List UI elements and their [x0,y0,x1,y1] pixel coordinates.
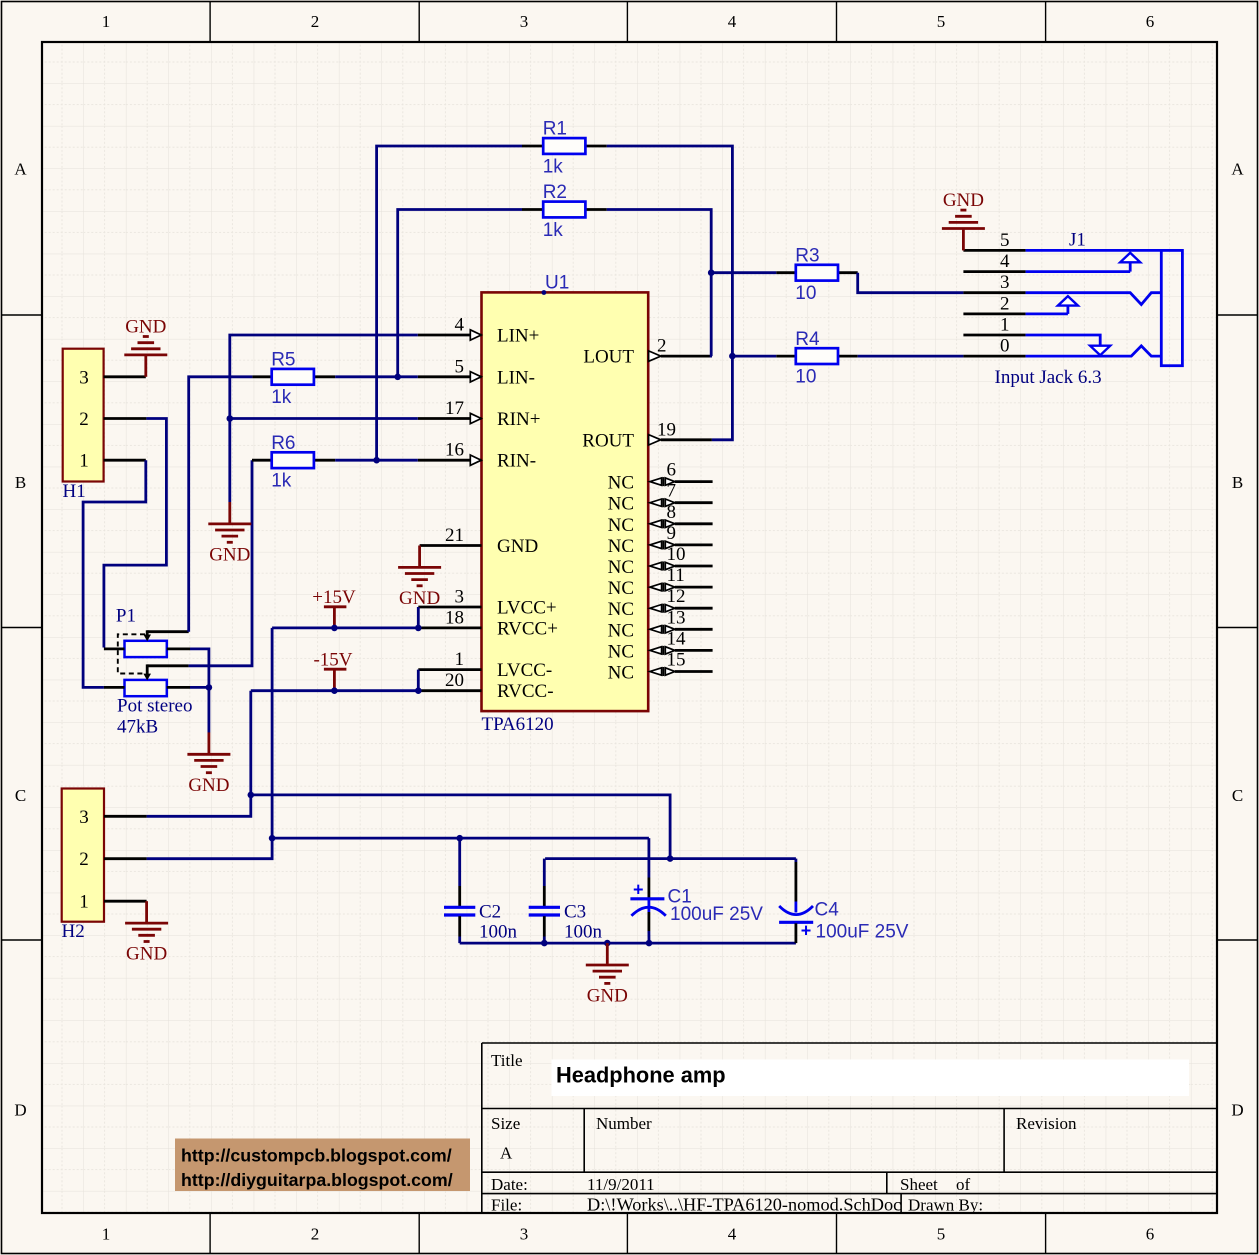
wire R2 left to LIN- junction [398,210,522,377]
svg-text:http://custompcb.blogspot.com/: http://custompcb.blogspot.com/ [181,1146,452,1166]
svg-text:J1: J1 [1069,230,1086,251]
J1 pin 0 [963,336,1025,357]
svg-text:2: 2 [79,409,89,430]
svg-text:0: 0 [1000,336,1010,357]
junction +15V symbol [331,625,338,632]
svg-text:GND: GND [399,588,440,609]
P1 value label [117,696,192,738]
svg-text:Headphone amp: Headphone amp [556,1063,726,1088]
P1 bottom-left terminal lead [104,686,125,689]
svg-text:TPA6120: TPA6120 [482,714,554,735]
junction C3 bottom [541,940,548,947]
P1 top-left terminal lead [104,648,125,651]
resistor R4 leads [776,355,857,358]
U1 pin 8 NC [608,502,713,536]
svg-text:+15V: +15V [312,587,356,608]
wire RIN+ branch [230,417,418,420]
wire R6 to RIN- pin [335,459,418,462]
U1 pin 10 NC [608,544,713,578]
svg-text:4: 4 [455,315,465,336]
svg-text:D: D [14,1101,26,1120]
svg-text:RIN-: RIN- [497,451,536,472]
svg-text:11: 11 [667,565,685,586]
svg-text:3: 3 [79,807,89,828]
wire R1 right to ROUT [607,146,733,440]
svg-text:NC: NC [608,494,634,515]
svg-text:RIN+: RIN+ [497,409,540,430]
svg-text:5: 5 [1000,230,1010,251]
svg-text:D:\!Works\..\HF-TPA6120-nomod.: D:\!Works\..\HF-TPA6120-nomod.SchDoc [587,1195,901,1215]
junction R1/R6/RIN- [373,457,380,464]
wire H1 pin2 to pot top-left [104,419,166,648]
connector H1 body [63,349,104,482]
svg-text:NC: NC [608,515,634,536]
svg-text:6: 6 [1146,1225,1155,1244]
junction VCC+ pins [415,625,422,632]
svg-text:H2: H2 [62,921,85,942]
svg-text:NC: NC [608,620,634,641]
junction C1 bottom [646,940,653,947]
svg-text:R5: R5 [271,350,295,371]
svg-text:19: 19 [657,419,676,440]
svg-text:NC: NC [608,641,634,662]
svg-text:B: B [15,473,26,492]
svg-text:RVCC+: RVCC+ [497,618,558,639]
U1 pin 2 LOUT [583,336,712,368]
wire R2 right to LOUT [607,210,712,357]
svg-text:NC: NC [608,536,634,557]
svg-text:12: 12 [667,586,686,607]
op-amp U1 TPA6120 body [482,292,649,711]
svg-text:Revision: Revision [1016,1114,1077,1133]
svg-text:1k: 1k [271,387,292,408]
svg-text:1: 1 [79,892,89,913]
svg-text:File:: File: [491,1196,522,1215]
U1 pin 12 NC [608,586,713,620]
svg-text:R6: R6 [271,433,295,454]
svg-text:1k: 1k [543,156,564,177]
svg-text:10: 10 [795,283,816,304]
svg-text:B: B [1232,473,1243,492]
svg-text:NC: NC [608,663,634,684]
svg-text:1: 1 [102,12,111,31]
J1 pin 5 [963,230,1025,251]
svg-text:2: 2 [311,12,320,31]
svg-text:3: 3 [455,587,465,608]
svg-text:Drawn By:: Drawn By: [908,1196,983,1215]
H2 pin 3 [79,807,146,828]
wire bottom wiper to R6 [189,460,252,666]
wire H1 pin1 to pot bottom-left [83,460,146,687]
capacitor C1 (polarized) [630,838,665,943]
svg-text:R1: R1 [543,119,567,140]
svg-text:C2: C2 [479,902,501,923]
ground symbol below caps [586,943,629,983]
svg-text:6: 6 [1146,12,1155,31]
wire R5 to LIN- pin [335,375,418,378]
svg-text:Size: Size [491,1114,520,1133]
svg-text:GND: GND [587,986,628,1007]
svg-text:NC: NC [608,578,634,599]
svg-text:NC: NC [608,473,634,494]
connector H2 body [62,789,104,922]
svg-text:2: 2 [657,336,667,357]
svg-text:C: C [1232,786,1243,805]
junction R2/R3 net [708,269,715,276]
P1 gang dashed link [118,634,145,673]
svg-text:-15V: -15V [313,650,352,671]
J1 jack symbol [1026,250,1183,365]
U1 pin 20 RVCC- [418,670,553,702]
junction rail ground [604,940,611,947]
junction pot ground [206,684,213,691]
svg-text:Pot stereo: Pot stereo [117,696,192,717]
svg-text:+: + [633,880,644,900]
svg-text:RVCC-: RVCC- [497,681,554,702]
svg-text:2: 2 [79,849,89,870]
svg-text:3: 3 [1000,272,1010,293]
svg-text:+: + [801,920,812,940]
svg-text:16: 16 [445,440,464,461]
svg-text:Date:: Date: [491,1175,528,1194]
svg-text:15: 15 [667,650,686,671]
potentiometer P1 bottom element [125,680,167,696]
wire top wiper to R5 [189,377,253,632]
junction R1/R4 net [729,353,736,360]
svg-text:4: 4 [1000,251,1010,272]
svg-text:3: 3 [79,367,89,388]
U1 pin 13 NC [608,607,713,641]
svg-text:4: 4 [728,12,737,31]
svg-text:GND: GND [126,944,167,965]
J1 pin 1 [963,315,1025,336]
svg-text:LIN-: LIN- [497,367,535,388]
svg-text:ROUT: ROUT [582,430,634,451]
capacitor C4 (polarized, flipped) [779,859,813,944]
resistor R6 [272,452,314,468]
P1 top wiper arrow [143,630,188,641]
URL note box [175,1139,470,1192]
svg-text:U1: U1 [545,273,569,294]
svg-text:R4: R4 [795,329,820,350]
P1 bottom-right terminal lead [167,686,190,689]
svg-text:C4: C4 [815,900,840,921]
U1 pin 7 NC [608,481,713,515]
capacitor C3 [529,859,560,944]
svg-text:of: of [956,1175,971,1194]
H2 pin 2 [79,849,146,870]
svg-text:LVCC+: LVCC+ [497,598,557,619]
svg-text:10: 10 [667,544,686,565]
resistor R4 [796,348,838,364]
wire +15V down to cap rail [272,628,649,838]
svg-text:11/9/2011: 11/9/2011 [587,1175,655,1194]
svg-text:A: A [14,160,27,179]
U1 pin 15 NC [608,650,713,684]
svg-text:Title: Title [491,1051,523,1070]
svg-text:LVCC-: LVCC- [497,660,552,681]
-15V power symbol [313,650,352,691]
+15V power symbol [312,587,356,628]
svg-text:C: C [15,786,26,805]
svg-text:13: 13 [667,607,686,628]
svg-text:5: 5 [937,12,946,31]
svg-text:7: 7 [667,481,677,502]
svg-text:18: 18 [445,607,464,628]
wire +15V rail to VCC+ pins [272,607,418,628]
svg-text:GND: GND [209,545,250,566]
resistor R5 [272,369,314,385]
svg-text:Number: Number [596,1114,652,1133]
svg-text:100uF 25V: 100uF 25V [816,922,909,943]
wire R1 left to RIN- junction [377,146,522,460]
svg-text:A: A [500,1144,513,1163]
wire -15V rail to VCC- pins [251,670,418,691]
U1 pin 18 RVCC+ [418,607,558,639]
resistor R6 leads [252,459,335,462]
wire H2 pin2 to +15V rail [147,838,273,859]
svg-text:4: 4 [728,1225,737,1244]
U1 designator [542,273,570,295]
ground symbol at J1 pin 5 [942,210,985,250]
resistor R1 [543,138,585,154]
svg-text:100uF 25V: 100uF 25V [670,904,763,925]
svg-text:5: 5 [937,1225,946,1244]
svg-text:1k: 1k [543,220,564,241]
H1 pin 3 [79,367,146,388]
wire R3 to jack tip [858,273,964,293]
svg-text:http://diyguitarpa.blogspot.co: http://diyguitarpa.blogspot.com/ [181,1170,453,1190]
resistor R5 leads [252,375,335,378]
resistor R1 leads [522,145,607,148]
svg-text:1: 1 [79,451,89,472]
U1 pin 14 NC [608,628,713,662]
svg-text:47kB: 47kB [117,717,158,738]
U1 pin 6 NC [608,460,713,494]
junction +15V rail / H2 pin2 [269,835,276,842]
H1 pin 2 [79,409,146,430]
svg-text:9: 9 [667,523,677,544]
U1 pin 3 LVCC+ [418,587,556,619]
svg-text:GND: GND [943,190,984,211]
svg-text:6: 6 [667,460,677,481]
svg-text:C3: C3 [564,902,586,923]
svg-text:100n: 100n [479,922,518,943]
junction -15V symbol [331,687,338,694]
U1 pin 17 RIN+ [418,398,541,430]
svg-text:17: 17 [445,398,464,419]
svg-text:LOUT: LOUT [583,347,634,368]
svg-text:14: 14 [667,628,687,649]
resistor R2 [543,202,585,218]
svg-text:8: 8 [667,502,677,523]
svg-text:NC: NC [608,557,634,578]
svg-text:P1: P1 [116,606,136,627]
H2 pin 1 [79,892,146,913]
svg-text:Sheet: Sheet [900,1175,938,1194]
U1 pin 19 ROUT [582,419,712,451]
svg-text:H1: H1 [63,481,86,502]
wire pot right terminals to ground [190,649,209,733]
junction -15V branch [248,792,255,799]
potentiometer P1 top element [125,641,167,657]
wire -15V cap rail C3 to C4 [545,857,796,860]
resistor R3 [796,265,838,281]
svg-text:1: 1 [102,1225,111,1244]
wire -15V branch to cap rail [251,795,670,859]
U1 pin 5 LIN- [418,356,535,388]
ground symbol at H1 pin 3 [124,337,167,377]
wire -15V down to H2 pin3 [147,691,251,817]
ground symbol at H2 pin 1 [125,901,168,941]
P1 top-right terminal lead [167,648,190,651]
wire ROUT junction to R4 [732,355,776,358]
svg-text:20: 20 [445,670,464,691]
ground symbol at U1 pin 21 [398,546,441,586]
svg-text:R2: R2 [543,182,567,203]
title block [482,1043,1217,1215]
wire bottom ground rail [460,942,796,945]
junction RIN+ ground net [227,415,234,422]
H1 pin 1 [79,451,146,472]
svg-text:Input Jack 6.3: Input Jack 6.3 [995,367,1102,388]
wire LOUT junction to R3 [711,271,776,274]
U1 pin 9 NC [608,523,713,557]
U1 pin 1 LVCC- [418,649,552,681]
junction C2 top [456,835,463,842]
svg-text:2: 2 [1000,293,1010,314]
svg-text:1k: 1k [271,471,292,492]
svg-text:GND: GND [497,536,538,557]
svg-text:D: D [1231,1101,1243,1120]
resistor R3 leads [776,271,857,274]
junction R2/R5/LIN- [394,374,401,381]
ground symbol below P1 [187,732,230,772]
svg-text:3: 3 [520,12,529,31]
U1 pin 16 RIN- [418,440,536,472]
capacitor C2 [444,838,475,943]
svg-text:1: 1 [1000,315,1010,336]
svg-text:2: 2 [311,1225,320,1244]
junction -15V cap rail [667,855,674,862]
J1 pin 2 [963,293,1025,314]
P1 bottom wiper arrow [143,664,188,680]
J1 pin 3 [963,272,1025,293]
svg-text:1: 1 [455,649,465,670]
svg-text:LIN+: LIN+ [497,326,539,347]
svg-text:R3: R3 [795,245,819,266]
svg-text:5: 5 [455,356,465,377]
svg-text:3: 3 [520,1225,529,1244]
svg-text:A: A [1231,160,1244,179]
svg-text:GND: GND [188,775,229,796]
wire R4 to jack ring [858,355,964,358]
U1 pin 11 NC [608,565,713,599]
U1 pin 4 LIN+ [418,315,540,347]
svg-text:NC: NC [608,599,634,620]
svg-text:21: 21 [445,525,464,546]
ground symbol input net [208,502,251,542]
svg-text:GND: GND [125,316,166,337]
J1 pin 4 [963,251,1025,272]
wire LIN+ to ground [230,335,418,502]
resistor R2 leads [522,208,607,211]
svg-text:100n: 100n [564,922,603,943]
junction VCC- pins [415,687,422,694]
U1 pin 21 GND [420,525,539,557]
svg-text:10: 10 [795,366,816,387]
